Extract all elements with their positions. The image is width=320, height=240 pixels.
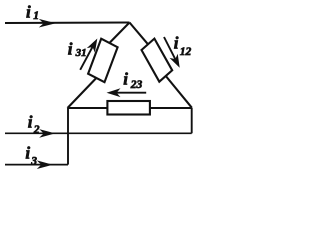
arrowhead on i3 rail (37, 160, 53, 169)
svg-text:31: 31 (75, 47, 87, 59)
wire: right side upper segment (apex to Z12 top) (130, 23, 149, 45)
svg-text:i: i (68, 40, 73, 59)
svg-text:i: i (123, 70, 128, 89)
current arrow i12 (shaft + head, pointing down-right) (164, 37, 180, 68)
wire: right vertical drop (node-2 corner down to i2 rail) (191, 108, 193, 134)
current arrow i23 (shaft + head, pointing left) (107, 88, 147, 97)
svg-text:i: i (174, 34, 179, 53)
wire: node-1 lead, horizontal to apex (5, 21, 130, 24)
impedance box Z12 (right diagonal) (142, 39, 173, 82)
wire: left side lower segment (Z31 bottom to node-3 corner) (68, 78, 97, 108)
svg-text:i: i (25, 143, 30, 162)
wire: i3 rail, horizontal (5, 164, 68, 166)
impedance box Z23 (bottom) (107, 101, 149, 115)
wire: left vertical drop (node-3 corner down to i3 rail) (67, 108, 69, 165)
wire: left side upper segment (apex to Z31 top) (109, 23, 129, 44)
svg-text:1: 1 (33, 10, 39, 22)
arrowhead on i2 rail (39, 129, 55, 138)
svg-text:i: i (26, 2, 31, 21)
wire: bottom side of delta (node-3 to node-2) (68, 107, 192, 109)
svg-text:i: i (28, 112, 33, 131)
wire: right side lower segment (Z12 bottom to node-2 corner) (166, 76, 192, 108)
svg-text:23: 23 (130, 79, 143, 91)
wire: i2 rail, horizontal (5, 132, 192, 134)
svg-text:2: 2 (33, 124, 40, 136)
current arrow i31 (shaft + head, pointing to apex) (80, 39, 97, 70)
arrowhead on i1 lead (39, 19, 56, 28)
svg-text:3: 3 (30, 156, 37, 168)
svg-text:12: 12 (180, 46, 192, 58)
impedance box Z31 (left diagonal) (88, 39, 118, 82)
